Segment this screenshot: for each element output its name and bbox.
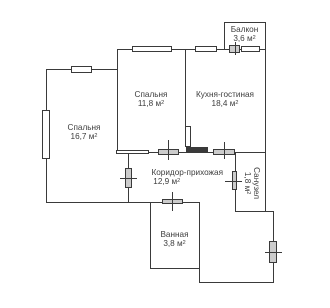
window bedroom1 top (71, 66, 93, 73)
vent shaft outline (185, 126, 191, 147)
door corridor to bedroom1 (125, 168, 132, 188)
wire wc bottom wall (235, 211, 274, 212)
wire divider bedroom1/bedroom2 (117, 49, 118, 152)
wire corridor top wall (117, 152, 267, 153)
door bathroom cross (172, 192, 173, 212)
wire top wall bedroom2 and kitchen (117, 49, 267, 50)
wire bathroom right wall (199, 202, 200, 284)
balcony door cross line (235, 42, 236, 55)
corridor opening white rect (116, 150, 149, 155)
label balcony (224, 25, 265, 43)
label kitchen (186, 90, 264, 108)
wire right outer wall upper (265, 22, 266, 211)
door wc cross (225, 181, 242, 182)
door corridor to bedroom2 cross (168, 140, 169, 160)
door bathroom (162, 199, 183, 204)
label bedroom1 (47, 123, 122, 141)
balcony door (229, 45, 240, 52)
wire bathroom left wall (150, 202, 151, 269)
door wc (232, 171, 237, 190)
wire divider bedroom2/kitchen (185, 49, 186, 147)
door corridor to kitchen cross (224, 142, 225, 159)
wire bedroom1 top wall (46, 69, 118, 70)
label bathroom (151, 230, 198, 248)
entrance door cross (265, 252, 282, 253)
wire balcony top wall (224, 22, 267, 23)
window bedroom2 top (132, 46, 173, 53)
wire bathroom bottom wall (150, 268, 200, 269)
label wc vertical (243, 159, 261, 207)
balcony window (241, 46, 261, 52)
label corridor line2 (151, 177, 183, 186)
wire right outer wall lower (273, 211, 274, 283)
door corridor to bedroom2 (158, 149, 179, 154)
label corridor line1 (151, 168, 224, 177)
wire bedroom1 and corridor bottom wall (46, 202, 200, 203)
entrance door (269, 241, 276, 263)
wire corridor left wall (128, 152, 129, 202)
window kitchen top (195, 46, 217, 53)
label bedroom2 (117, 90, 185, 108)
vent shaft black block (186, 147, 208, 152)
window bedroom1 left (42, 110, 50, 159)
door corridor to bedroom1 cross (120, 178, 137, 179)
wire balcony left wall (224, 22, 225, 50)
wire left outer wall (46, 69, 47, 202)
wire wc left wall (235, 152, 236, 212)
door corridor to kitchen (213, 149, 235, 154)
wire bottom outer wall (199, 282, 274, 283)
